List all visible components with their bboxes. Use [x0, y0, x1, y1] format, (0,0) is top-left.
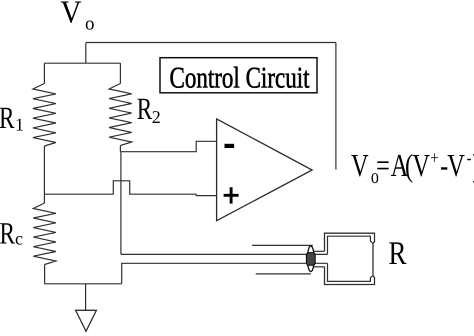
resistor R2 — [109, 84, 132, 146]
svg-text:R: R — [389, 236, 407, 272]
wire noninverting input with hop — [44, 181, 216, 196]
svg-text:V: V — [447, 147, 465, 183]
svg-text:V: V — [351, 147, 369, 183]
svg-text:V: V — [61, 0, 82, 30]
ground — [76, 310, 97, 331]
wire sensor support upper — [252, 244, 313, 246]
wire sensor upper lead — [121, 253, 328, 255]
resistor R1 — [33, 84, 56, 147]
wire mount outer stub upper — [312, 250, 325, 252]
svg-text:V: V — [412, 147, 430, 183]
wire R1 bottom lead — [43, 146, 45, 194]
thermistor mount outer wall — [325, 233, 375, 284]
svg-text:R: R — [0, 216, 15, 251]
wire Rc top lead — [43, 194, 45, 203]
thermistor mount inner wall bottom — [328, 263, 373, 281]
wire sensor lower return — [122, 263, 328, 284]
svg-text:R: R — [137, 91, 153, 126]
wire ground stem — [85, 284, 87, 311]
svg-text:-: - — [467, 148, 472, 169]
thermistor bead element R — [306, 253, 315, 266]
wire R1 top lead — [43, 63, 45, 83]
thermistor bead ellipse — [307, 246, 314, 272]
resistor Rc — [33, 203, 56, 265]
op-amp plus input symbol — [224, 187, 239, 203]
svg-text:R: R — [0, 100, 15, 135]
wire bottom ground bus — [44, 283, 121, 285]
op-amp minus input symbol — [225, 144, 235, 148]
svg-text:+: + — [430, 148, 438, 169]
svg-text:c: c — [15, 229, 23, 249]
op-amp U1 — [217, 119, 313, 221]
svg-text:=: = — [376, 147, 390, 183]
control circuit box — [160, 58, 317, 93]
wire inverting input — [120, 141, 216, 151]
svg-text:2: 2 — [152, 107, 161, 127]
wire Rc bottom lead — [44, 265, 46, 284]
wire bridge right vertical — [120, 152, 122, 255]
thermistor mount inner wall top — [328, 236, 373, 254]
wire right vertical — [335, 43, 337, 170]
label output equation — [351, 147, 474, 188]
wire mount outer stub lower — [312, 266, 325, 268]
wire sensor support lower — [256, 273, 311, 275]
svg-text:Control Circuit: Control Circuit — [170, 61, 311, 94]
wire bridge top — [44, 62, 120, 64]
svg-text:1: 1 — [15, 115, 24, 135]
node Vo stem — [85, 43, 87, 63]
wire R2 top lead — [119, 63, 121, 83]
wire top feedback — [86, 42, 336, 44]
svg-text:o: o — [85, 14, 95, 35]
wire R2 bottom lead — [119, 146, 121, 152]
